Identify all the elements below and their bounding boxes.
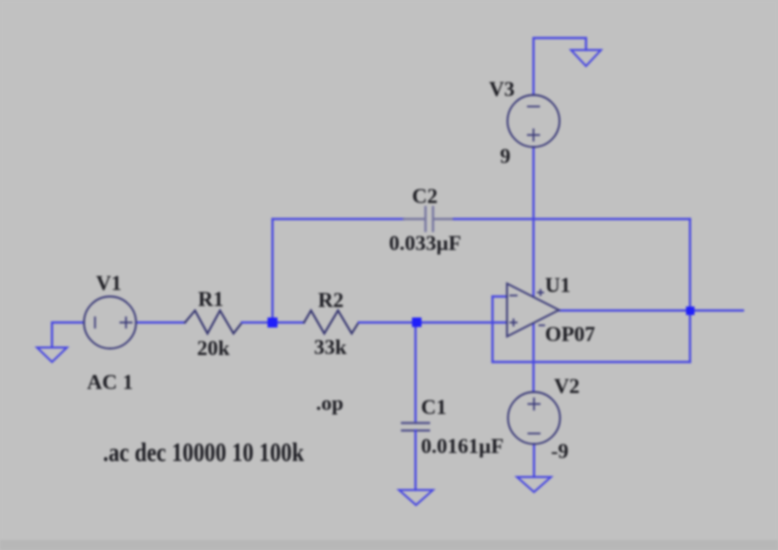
capacitor C2 (404, 207, 454, 231)
voltage source V1 (84, 297, 136, 349)
wire V2 to ground (533, 444, 535, 477)
svg-text:C1: C1 (421, 395, 447, 419)
voltage source V3 (508, 95, 560, 147)
wire V3 top to ground (534, 38, 587, 95)
resistor R1 (185, 311, 242, 334)
svg-text:-9: -9 (551, 439, 569, 463)
wire C1 to ground (414, 431, 416, 491)
op-amp U1 (507, 284, 559, 337)
svg-text:U1: U1 (545, 273, 571, 297)
svg-text:.ac dec 10000 10 100k: .ac dec 10000 10 100k (103, 438, 304, 467)
svg-text:C2: C2 (412, 184, 438, 208)
voltage source V2 (508, 392, 560, 444)
U1 non-inverting input mark (510, 319, 518, 327)
wire node A up to C2 line (271, 219, 273, 323)
wire node B to op-amp + input (416, 321, 508, 323)
wire V3 to op-amp V+ (532, 147, 534, 296)
V2 plus mark (528, 398, 541, 411)
output node junction (686, 307, 695, 316)
wire feedback bottom (493, 361, 691, 363)
ground (V2) (517, 477, 551, 492)
svg-text:AC 1: AC 1 (87, 370, 133, 394)
svg-text:OP07: OP07 (545, 322, 595, 346)
svg-text:V1: V1 (96, 271, 122, 295)
wire feedback left vertical (491, 297, 493, 363)
wire C2 right segment (454, 218, 690, 220)
svg-text:20k: 20k (197, 336, 230, 360)
node A junction (268, 318, 278, 328)
svg-text:V2: V2 (554, 374, 580, 398)
ground (C1) (399, 490, 433, 505)
capacitor C1 (402, 423, 429, 431)
svg-text:R1: R1 (198, 287, 224, 311)
V1 plus mark (120, 317, 133, 329)
wire V1 left to ground corner (52, 323, 84, 348)
wire R1 to node A (242, 321, 273, 323)
svg-text:R2: R2 (318, 288, 344, 312)
U1 inverting input mark (510, 295, 518, 297)
svg-text:.op: .op (316, 391, 343, 415)
wire op-amp output (559, 309, 743, 311)
svg-text:0.033µF: 0.033µF (389, 231, 461, 255)
wire feedback to inverting input (493, 295, 508, 297)
svg-text:V3: V3 (489, 77, 515, 101)
ground (V1) (37, 348, 67, 363)
V3 plus mark (527, 129, 540, 142)
U1 V+ pin mark (537, 289, 544, 296)
wire node B down to C1 (414, 323, 416, 424)
svg-text:33k: 33k (314, 335, 347, 359)
svg-text:9: 9 (500, 144, 511, 168)
V1 minus mark (94, 317, 96, 329)
V2 minus mark (528, 433, 541, 435)
node B junction (412, 318, 422, 328)
wire V1 right to R1 (136, 321, 185, 323)
svg-text:0.0161µF: 0.0161µF (421, 434, 504, 458)
ground (V3) (571, 50, 601, 66)
resistor R2 (304, 311, 359, 334)
wire R2 to node B (359, 321, 416, 323)
wire C2 left segment (273, 218, 405, 220)
U1 V- pin mark (539, 324, 546, 326)
wire node A to R2 (273, 321, 304, 323)
wire right vertical (output to C2) (689, 219, 691, 362)
V3 minus mark (527, 106, 540, 108)
wire op-amp V- to V2 (532, 324, 534, 392)
